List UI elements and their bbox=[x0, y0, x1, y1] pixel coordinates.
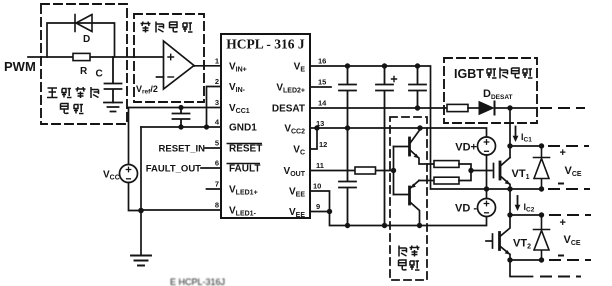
node VOUT base junction bbox=[391, 168, 396, 173]
svg-text:IGBT: IGBT bbox=[454, 67, 484, 81]
wire PNP base bbox=[394, 194, 409, 196]
wire R3 to DDESAT bbox=[468, 107, 479, 109]
source VD- bbox=[478, 199, 496, 217]
wire gate node to VT1 gate bbox=[471, 170, 492, 172]
transistor Q2 PNP body bar bbox=[408, 187, 411, 204]
wire VT2 collector node line bbox=[510, 214, 542, 216]
svg-text:FAULT: FAULT bbox=[229, 164, 260, 175]
source VCC plus mark bbox=[126, 167, 130, 171]
wire VLED1+ pin7 stub bbox=[207, 188, 222, 190]
svg-text:13: 13 bbox=[316, 119, 324, 128]
label 整形电路 bbox=[141, 22, 193, 33]
wire VLED1- pin8 bbox=[141, 209, 221, 211]
wire VEE pin10 bbox=[310, 191, 330, 212]
svg-text:C: C bbox=[96, 69, 103, 80]
wire VT1 collector vertical bbox=[509, 108, 511, 158]
capacitor C2 VCC1 bypass bbox=[173, 108, 190, 128]
op-amp comparator U1 bbox=[164, 41, 195, 89]
source VD+ minus mark bbox=[485, 150, 489, 152]
wire dashed emitter bottom bus bbox=[541, 276, 580, 278]
resistor R bbox=[73, 53, 90, 60]
node blanking cap to DESAT bbox=[415, 105, 420, 110]
wire VLED2+ pin15 stub bbox=[310, 86, 331, 88]
push-pull box 推挽电路 bbox=[390, 117, 427, 280]
node VIN- GND1 junction bbox=[204, 124, 209, 129]
diode D2 VCE freewheel bbox=[534, 215, 550, 260]
wire VOUT pin11 bbox=[310, 170, 394, 172]
igbt VT2 gate bar bbox=[492, 234, 494, 248]
svg-text:2: 2 bbox=[215, 77, 219, 86]
svg-text:6: 6 bbox=[215, 159, 219, 168]
svg-text:E HCPL-316J: E HCPL-316J bbox=[170, 277, 225, 286]
wire dashed DESAT bus bbox=[541, 107, 584, 109]
wire DESAT pin14 bbox=[310, 107, 447, 109]
wire VEE rail bbox=[330, 212, 487, 226]
wire dashed VT2 emitter bus bbox=[550, 259, 590, 261]
wire base node vertical bbox=[393, 147, 395, 195]
dead-zone generator box 死区发生电路 bbox=[41, 4, 127, 124]
svg-text:8: 8 bbox=[215, 201, 219, 210]
node VT2 emitter bbox=[507, 257, 512, 262]
wire VT1 emitter down bbox=[509, 185, 511, 190]
svg-text:+: + bbox=[560, 147, 566, 159]
svg-text:DESAT: DESAT bbox=[272, 104, 305, 115]
diode D bbox=[75, 15, 92, 32]
svg-text:1: 1 bbox=[215, 57, 219, 66]
node pin9-10 junction bbox=[327, 209, 332, 214]
current arrow Ic2 bbox=[517, 196, 519, 207]
node common ground junction bbox=[138, 208, 144, 214]
wire DDESAT cathode bbox=[496, 107, 537, 109]
node NPN collector junction bbox=[417, 125, 422, 130]
wire dashed collector bus bbox=[549, 145, 588, 147]
igbt VT1 gate bar bbox=[493, 164, 495, 178]
wire dashed VE bus bbox=[549, 188, 589, 190]
polarity - lower VCE bbox=[558, 255, 564, 257]
resistor R2 on VOUT bbox=[355, 167, 376, 174]
polarity - upper VCE bbox=[558, 183, 564, 185]
wire VD+ bottom to midpoint bbox=[486, 155, 488, 189]
wire NPN emitter to Rg1 bbox=[419, 159, 434, 165]
comparator plus input mark bbox=[168, 54, 174, 59]
wire NPN base bbox=[394, 146, 409, 148]
svg-text:16: 16 bbox=[318, 57, 326, 66]
resistor Rg1 bbox=[434, 161, 459, 168]
wire VT2 emitter line bbox=[510, 259, 542, 261]
node cap C2 bottom bbox=[178, 124, 183, 129]
node cap C4 bottom bbox=[382, 223, 387, 228]
wire VCC rail down bbox=[128, 108, 130, 165]
svg-text:RESET: RESET bbox=[229, 144, 262, 155]
svg-text:RESET_IN: RESET_IN bbox=[159, 144, 206, 155]
resistor R3 DESAT bbox=[447, 104, 468, 111]
wire Vref/2 stub bbox=[157, 76, 164, 78]
transistor Q1 emitter with arrow bbox=[411, 151, 419, 158]
svg-text:14: 14 bbox=[318, 99, 327, 108]
label 推挽 bbox=[399, 246, 420, 257]
node VCE diode1 top bbox=[539, 143, 544, 148]
comparator minus input mark bbox=[168, 76, 174, 78]
transistor Q2 emitter with arrow bbox=[411, 181, 419, 188]
wire RESET_IN to pin5 bbox=[205, 147, 221, 149]
capacitor C bbox=[105, 57, 122, 103]
transistor Q1 collector bbox=[411, 129, 421, 143]
wire FAULT_OUT to pin6 bbox=[201, 167, 221, 169]
node VT1 emitter on VE rail bbox=[507, 186, 512, 191]
svg-text:GND1: GND1 bbox=[229, 123, 257, 134]
source VD- plus mark bbox=[484, 201, 488, 205]
node VD midpoint on VE rail bbox=[484, 186, 489, 191]
wire GND1 pin4 bbox=[141, 126, 221, 128]
igbt VT1 collector lead bbox=[501, 158, 510, 166]
source VCC minus mark bbox=[127, 178, 131, 180]
node cap C2 top bbox=[178, 105, 183, 110]
wire VCC to ground node bbox=[129, 183, 142, 211]
capacitor C4 plus mark bbox=[392, 77, 397, 82]
svg-text:PWM: PWM bbox=[4, 59, 36, 74]
svg-text:10: 10 bbox=[313, 182, 321, 191]
resistor Rg2 bbox=[434, 177, 459, 184]
node VCE diode2 top bbox=[539, 212, 544, 217]
wire VC pin12 tie to VCC2 bbox=[310, 128, 317, 149]
source VD+ bbox=[478, 137, 496, 155]
svg-text:3: 3 bbox=[215, 98, 219, 107]
IGBT protection box IGBT保护电路 bbox=[444, 58, 537, 123]
ground (dead-zone) bbox=[104, 103, 122, 112]
svg-text:HCPL - 316 J: HCPL - 316 J bbox=[226, 37, 305, 52]
node VT1 collector node bbox=[507, 143, 512, 148]
source VCC bbox=[120, 165, 138, 183]
svg-text:R: R bbox=[80, 66, 88, 77]
op-amp U2 HCPL-316J IC body bbox=[221, 34, 310, 218]
igbt VT2 collector lead bbox=[500, 215, 510, 236]
node cap C3 bottom bbox=[345, 125, 350, 130]
source VD- minus mark bbox=[485, 212, 489, 214]
capacitor C3 VE-VCC2 bbox=[339, 66, 356, 128]
node VE cap junction 3 bbox=[415, 63, 420, 68]
svg-text:D: D bbox=[83, 34, 90, 45]
svg-text:+: + bbox=[560, 217, 566, 229]
node VC tie bbox=[314, 125, 319, 130]
node VCE diode1 bottom on VE rail bbox=[539, 186, 544, 191]
svg-text:7: 7 bbox=[215, 180, 219, 189]
wire half-bridge midpoint vertical bbox=[509, 189, 511, 215]
svg-text:9: 9 bbox=[316, 202, 320, 211]
transistor Q1 NPN body bar bbox=[408, 138, 411, 155]
current arrow Ic1 bbox=[515, 127, 517, 139]
wire VCC1 pin3 bbox=[129, 107, 222, 109]
wire VD- top lead bbox=[486, 189, 488, 199]
wire diode-branch bbox=[47, 23, 115, 57]
label 电路 (push-pull) bbox=[399, 260, 420, 270]
igbt VT2 body bar bbox=[498, 233, 501, 250]
wire collector node to VCE diode bbox=[510, 145, 542, 147]
transistor Q2 collector bbox=[411, 203, 420, 226]
capacitor C5 blanking VE-DESAT bbox=[409, 66, 426, 108]
node VT1 collector tap bbox=[507, 105, 512, 110]
wire VCC2 pin13 rail bbox=[310, 128, 487, 137]
node VE cap junction 2 bbox=[382, 63, 387, 68]
wire VE pin16 rail bbox=[310, 66, 542, 189]
wire GND1 rail down bbox=[140, 127, 142, 256]
diode D1 VCE freewheel bbox=[534, 146, 550, 189]
wire PWM input bbox=[28, 56, 164, 58]
node gate resistor junction bbox=[468, 168, 473, 173]
node VCE diode2 bottom bbox=[539, 257, 544, 262]
wire comparator output to pin 1 bbox=[194, 65, 221, 67]
svg-text:VD -: VD - bbox=[455, 203, 477, 215]
wire VIN- pin2 tie to GND1 bbox=[207, 87, 222, 128]
svg-text:15: 15 bbox=[318, 78, 326, 87]
shaping circuit box 整形电路 bbox=[134, 14, 204, 102]
igbt VT2 emitter lead with arrow bbox=[500, 247, 509, 255]
igbt VT2 gate stub bbox=[486, 240, 492, 242]
svg-text:12: 12 bbox=[319, 140, 327, 149]
source VD+ plus mark bbox=[484, 140, 488, 144]
wire Rg2 to gate node bbox=[459, 171, 471, 181]
capacitor C4 polarized VE-VEE bbox=[376, 66, 393, 226]
wire Rg1 to gate node bbox=[459, 164, 471, 171]
igbt VT1 body bar bbox=[499, 162, 502, 179]
svg-text:5: 5 bbox=[215, 139, 219, 148]
wire Rg2 to PNP emitter bbox=[419, 180, 434, 182]
capacitor C6 VCC2-VEE bbox=[339, 128, 356, 226]
wire VT2 emitter elbow to bus bbox=[510, 260, 533, 277]
svg-text:FAULT_OUT: FAULT_OUT bbox=[146, 164, 201, 175]
node cap C6 bottom bbox=[345, 223, 350, 228]
node VT2 collector bbox=[507, 212, 512, 217]
ground (main) bbox=[131, 256, 151, 266]
svg-text:VD+: VD+ bbox=[455, 142, 477, 154]
label 电路 (dead-zone) bbox=[61, 104, 84, 114]
diode DDESAT bbox=[479, 102, 494, 115]
igbt VT1 emitter lead with arrow bbox=[501, 177, 510, 185]
wire VEE pin9 bbox=[310, 211, 330, 213]
node PNP collector junction bbox=[417, 223, 422, 228]
wire dashed VT2 collector bus bbox=[550, 214, 590, 216]
wire VT2 emitter down bbox=[509, 255, 511, 261]
label 死区发生 bbox=[47, 87, 99, 98]
svg-text:11: 11 bbox=[316, 161, 324, 170]
node VE cap junction 1 bbox=[345, 63, 350, 68]
